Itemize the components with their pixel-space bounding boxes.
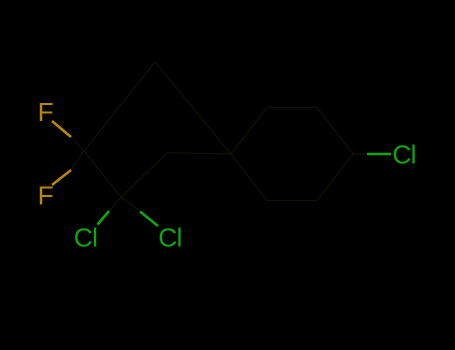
Cl para bond green half bbox=[367, 153, 391, 156]
svg-text:F: F bbox=[38, 97, 54, 127]
svg-text:F: F bbox=[38, 181, 54, 211]
svg-text:Cl: Cl bbox=[74, 222, 97, 252]
chlorine halves (green) bbox=[98, 154, 392, 226]
carbon half of C-Cl right bond bbox=[121, 197, 140, 212]
carbon half of C-Cl para bond bbox=[353, 153, 367, 155]
fluorine halves (gold) bbox=[52, 121, 71, 185]
Cl left bond green half bbox=[98, 211, 110, 225]
F1 bond gold half bbox=[52, 121, 71, 137]
Cl right bond green half bbox=[140, 212, 158, 227]
hexagon ring bbox=[231, 108, 353, 201]
bond C3-L bbox=[168, 153, 232, 154]
carbon half of C-F1 bond bbox=[71, 137, 84, 151]
bond A-L bbox=[155, 62, 231, 154]
svg-text:Cl: Cl bbox=[158, 222, 181, 252]
F2 bond gold half bbox=[52, 170, 71, 185]
carbon half of C-F2 bond bbox=[71, 151, 84, 170]
carbon half of C-Cl left bond bbox=[109, 197, 121, 211]
bond C1-A bbox=[84, 62, 155, 151]
wire skeleton: pentagon ring bonds bbox=[71, 62, 367, 212]
bond C1-C2 bbox=[84, 151, 121, 197]
svg-text:Cl: Cl bbox=[392, 139, 415, 169]
bond C2-C3 bbox=[121, 153, 168, 197]
